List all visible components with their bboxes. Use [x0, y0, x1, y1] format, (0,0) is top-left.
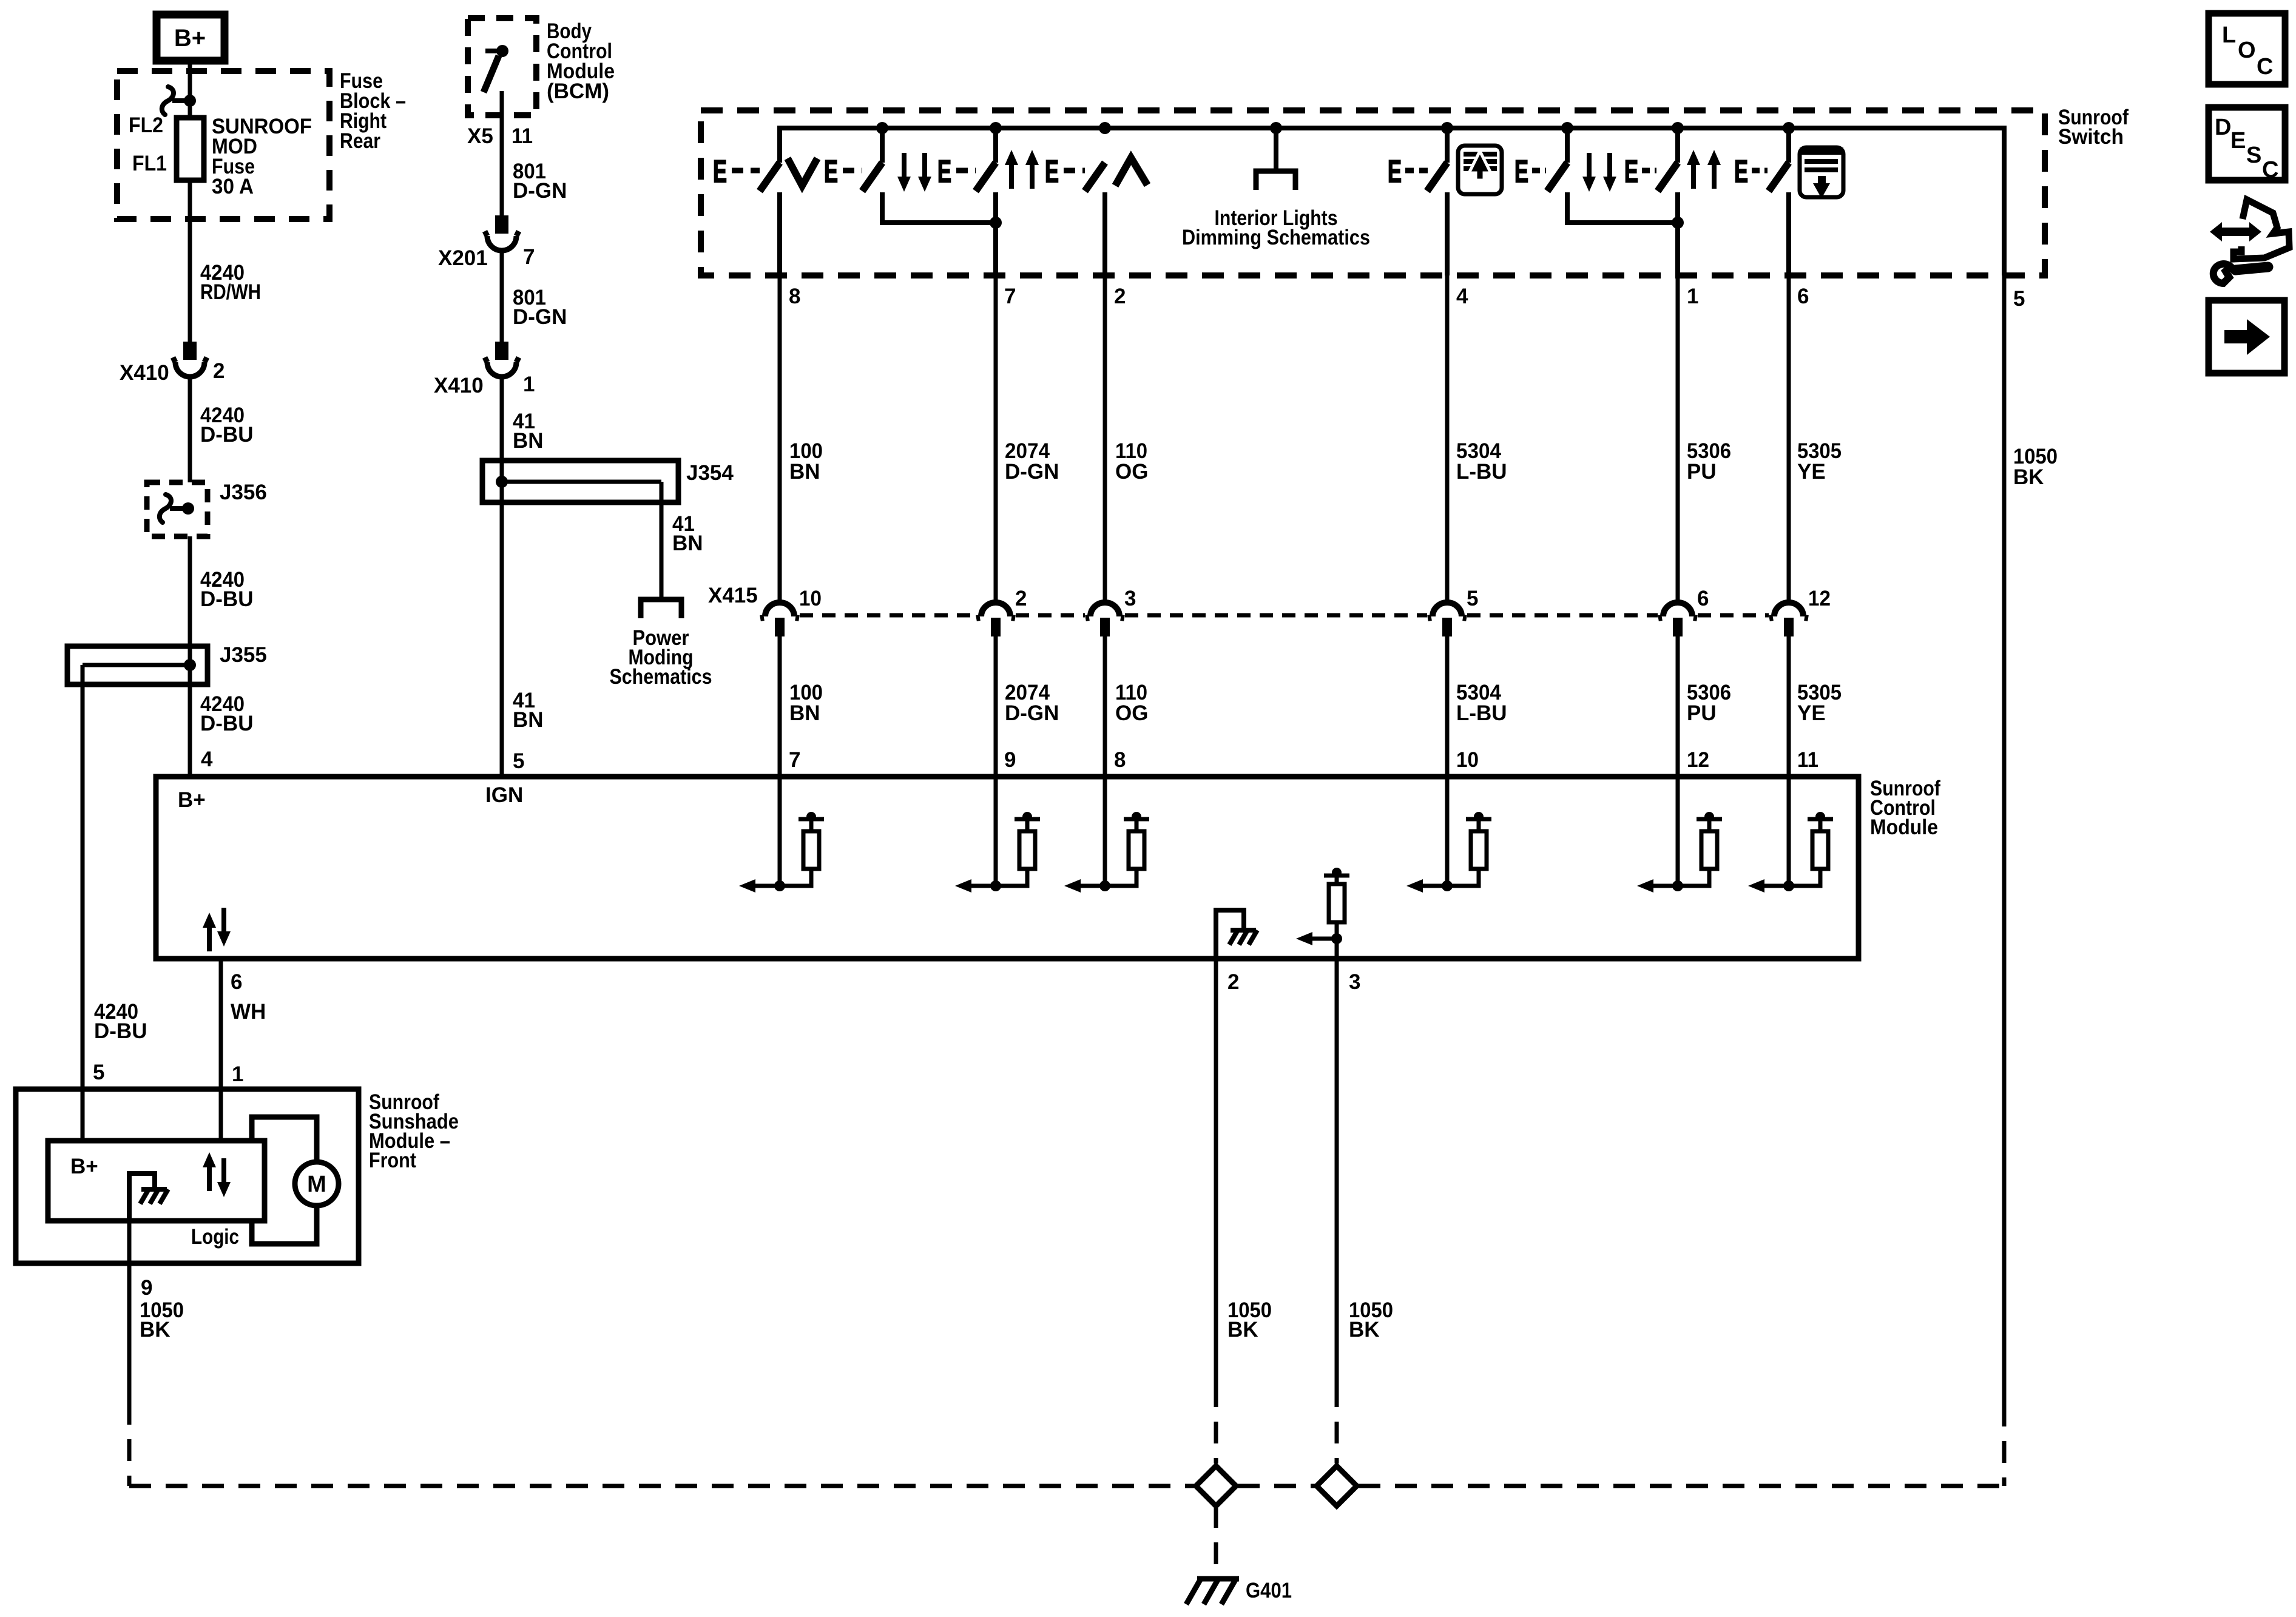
svg-text:FL1: FL1 — [132, 152, 167, 175]
wire X415-6 to module pin 12 — [1676, 635, 1680, 777]
wire X410 to J354 — [500, 374, 504, 482]
DESC reference box — [2209, 107, 2285, 183]
svg-text:D-GN: D-GN — [1005, 701, 1059, 725]
svg-text:7: 7 — [789, 748, 800, 772]
LOC reference box — [2209, 13, 2285, 84]
wire X415-3 to module pin 8 — [1103, 635, 1107, 777]
wire label 4240 D-BU — [200, 568, 253, 611]
svg-text:B+: B+ — [70, 1155, 98, 1178]
svg-text:J355: J355 — [220, 643, 267, 667]
wire label 5305 YE — [1797, 439, 1842, 484]
wire X415-5 to module pin 10 — [1445, 635, 1450, 777]
svg-text:IGN: IGN — [485, 783, 523, 807]
icon sunshade close — [1800, 147, 1843, 198]
svg-text:BN: BN — [513, 708, 544, 732]
svg-text:1: 1 — [523, 373, 535, 396]
switch S8 sunshade-close — [1734, 128, 1789, 275]
node at fuse top — [184, 95, 196, 107]
splice diamond S1 — [1196, 1466, 1236, 1506]
input network pin 10 — [1406, 777, 1491, 893]
connector X415 pin 3 — [1086, 587, 1136, 636]
sunroof switch dashed box — [701, 110, 2045, 275]
wire label 100 BN — [789, 681, 823, 725]
svg-text:5: 5 — [1467, 587, 1478, 610]
svg-text:RD/WH: RD/WH — [200, 280, 261, 304]
wire B+ to fuse — [188, 61, 192, 119]
svg-text:X410: X410 — [434, 374, 484, 397]
wire label 41 BN — [672, 512, 703, 555]
svg-text:Logic: Logic — [191, 1225, 239, 1249]
wire X415-12 to module pin 11 — [1787, 635, 1791, 777]
svg-text:5: 5 — [513, 749, 524, 773]
module internal ground pin 2 — [1216, 910, 1257, 959]
svg-text:D-BU: D-BU — [94, 1019, 147, 1043]
svg-text:J356: J356 — [220, 481, 267, 504]
sunshade module label — [369, 1090, 459, 1172]
wire label 4240 D-BU — [200, 403, 253, 447]
svg-text:B+: B+ — [174, 25, 206, 52]
svg-text:X201: X201 — [438, 246, 488, 270]
motor M1 — [295, 1162, 339, 1206]
wire label 100 BN — [789, 439, 823, 484]
svg-text:WH: WH — [231, 1000, 266, 1024]
wire switch 5 ground 1050 BK — [2013, 445, 2058, 489]
connector view icon — [2210, 200, 2289, 283]
wire label 801 D-GN — [513, 286, 567, 329]
input network pin 9 — [955, 777, 1040, 893]
svg-text:Schematics: Schematics — [610, 665, 712, 689]
svg-text:30 A: 30 A — [212, 175, 254, 198]
svg-text:9: 9 — [1004, 748, 1016, 772]
wire label 4240 D-BU — [200, 692, 253, 735]
svg-text:YE: YE — [1797, 460, 1826, 484]
svg-text:6: 6 — [1797, 285, 1809, 308]
svg-text:D-GN: D-GN — [1005, 460, 1059, 484]
wire X415-10 to module pin 7 — [778, 635, 782, 777]
svg-text:L: L — [2222, 22, 2236, 48]
input network pin 8 — [1064, 777, 1149, 893]
wire switch 2 to X415 pin 3 — [1103, 275, 1107, 602]
svg-text:E: E — [1388, 154, 1402, 189]
wire label 1050 BK — [1227, 1298, 1272, 1342]
switch S4 slide-open — [996, 154, 1147, 275]
svg-text:Rear: Rear — [340, 129, 380, 153]
wire label 110 OG — [1115, 681, 1148, 725]
motor drive loop — [252, 1117, 317, 1244]
wire sunshade pin 9 ground — [127, 1221, 132, 1486]
svg-text:9: 9 — [141, 1276, 152, 1300]
svg-text:D-BU: D-BU — [200, 423, 253, 447]
module output network pin 3 — [1296, 868, 1349, 959]
connector X415 pin 2 — [976, 587, 1027, 636]
connector X415 pin 6 — [1658, 587, 1709, 636]
switch S6 sunshade-close partial — [1514, 128, 1616, 192]
svg-text:X5: X5 — [467, 124, 493, 148]
fuse tap hook — [162, 87, 190, 115]
svg-text:5: 5 — [93, 1061, 104, 1084]
svg-text:O: O — [2238, 38, 2256, 63]
svg-text:10: 10 — [1456, 748, 1479, 772]
svg-text:12: 12 — [1687, 748, 1709, 772]
svg-text:FL2: FL2 — [129, 113, 163, 137]
wire module pin 6 to sunshade pin 1 — [219, 959, 223, 1141]
wire BCM X5 pin 11 to X201 — [500, 91, 504, 215]
wire J354 to module pin 5 IGN — [500, 502, 504, 777]
wire label 801 D-GN — [513, 160, 567, 203]
wire label 2074 D-GN — [1005, 681, 1059, 725]
connector X415 dashed harness line — [708, 584, 1769, 615]
BCM label — [547, 19, 615, 103]
svg-text:M: M — [307, 1172, 326, 1197]
splice pack J354 — [482, 461, 734, 502]
power moding schematics label — [610, 626, 712, 689]
svg-text:OG: OG — [1115, 460, 1148, 484]
wire switch 8 to X415 pin 10 — [778, 275, 782, 602]
branch wire J354 to power moding — [660, 482, 664, 597]
wire module pin 3 to splice — [1335, 959, 1339, 1463]
wire switch 4 to X415 pin 5 — [1445, 275, 1450, 602]
svg-text:C: C — [2262, 157, 2278, 183]
wire switch 6 to X415 pin 12 — [1787, 275, 1791, 602]
switch common bus wire — [780, 128, 2004, 275]
wire switch 1 to X415 pin 6 — [1676, 275, 1680, 602]
wire switch 7 to X415 pin 2 — [994, 275, 998, 602]
sunshade pin 5 wire inside — [81, 1089, 85, 1143]
svg-text:PU: PU — [1687, 701, 1717, 725]
input network pin 11 — [1748, 777, 1833, 893]
logic up-down arrows — [203, 1152, 231, 1197]
connector X5 pin 11 labels — [467, 124, 533, 148]
svg-text:E: E — [1045, 154, 1059, 189]
svg-text:BN: BN — [789, 460, 820, 484]
svg-text:12: 12 — [1808, 587, 1831, 610]
wire label 2074 D-GN — [1005, 439, 1059, 484]
svg-text:L-BU: L-BU — [1456, 701, 1507, 725]
svg-text:BN: BN — [513, 429, 544, 453]
sunroof sunshade module box — [16, 1089, 359, 1263]
svg-text:S: S — [2246, 143, 2261, 168]
BCM internal switch — [484, 45, 508, 92]
svg-text:BN: BN — [672, 532, 703, 555]
svg-text:B+: B+ — [178, 788, 206, 812]
wire X201 to X410 — [500, 248, 504, 342]
svg-text:1: 1 — [1687, 285, 1698, 308]
svg-text:4: 4 — [1456, 285, 1468, 308]
svg-text:8: 8 — [1114, 748, 1126, 772]
svg-text:C: C — [2257, 54, 2273, 79]
svg-text:BK: BK — [1227, 1318, 1258, 1342]
logic internal ground — [129, 1173, 168, 1221]
svg-text:BK: BK — [1349, 1318, 1380, 1342]
fuse FL2/FL1 SUNROOF MOD Fuse 30 A — [129, 113, 312, 198]
svg-text:3: 3 — [1349, 970, 1360, 994]
svg-text:D-GN: D-GN — [513, 305, 567, 329]
forward arrow box — [2209, 300, 2284, 373]
wire splice to G401 — [1214, 1506, 1218, 1578]
svg-text:BK: BK — [140, 1318, 171, 1342]
connector X410 pin 2 — [120, 342, 225, 385]
svg-text:1: 1 — [232, 1062, 243, 1086]
svg-text:Dimming Schematics: Dimming Schematics — [1182, 226, 1370, 249]
wire label 5305 YE — [1797, 681, 1842, 725]
svg-text:3: 3 — [1124, 587, 1136, 610]
connector X410 pin 1 — [434, 342, 535, 397]
icon sunshade open — [1458, 146, 1502, 194]
splice pack J355 — [67, 643, 267, 684]
svg-text:E: E — [713, 154, 727, 189]
wire X410 to J356 — [188, 374, 192, 485]
svg-text:BK: BK — [2013, 465, 2044, 489]
wire label 1050 BK — [140, 1298, 184, 1342]
wire label 5306 PU — [1687, 681, 1731, 725]
fuse block dashed box — [117, 71, 329, 219]
svg-text:2: 2 — [1114, 285, 1126, 308]
switch pin labels — [789, 285, 2025, 311]
battery terminal B+ — [157, 15, 225, 61]
connector X201 pin 7 — [438, 215, 535, 270]
input network pin 12 — [1637, 777, 1722, 893]
svg-text:7: 7 — [1004, 285, 1016, 308]
bus junction nodes — [876, 122, 1795, 134]
wire label 5304 L-BU — [1456, 681, 1507, 725]
wire switch pin 5 to ground bus — [2002, 275, 2007, 1486]
svg-text:Module: Module — [1870, 815, 1938, 839]
connector X415 pin 5 — [1428, 587, 1478, 636]
svg-text:6: 6 — [231, 970, 242, 994]
svg-text:5: 5 — [2013, 287, 2025, 311]
svg-text:8: 8 — [789, 285, 800, 308]
svg-text:G401: G401 — [1246, 1579, 1292, 1602]
wire X415-2 to module pin 9 — [994, 635, 998, 777]
ground G401 — [1186, 1579, 1292, 1604]
svg-text:11: 11 — [1797, 748, 1818, 772]
switch S1 vent-close — [713, 128, 882, 191]
switch S2 vent-open — [780, 153, 931, 275]
svg-text:6: 6 — [1697, 587, 1709, 610]
svg-text:PU: PU — [1687, 460, 1717, 484]
wire label 41 BN — [513, 689, 544, 732]
svg-text:YE: YE — [1797, 701, 1826, 725]
ground bus dashed wire — [129, 1484, 2004, 1488]
svg-text:Switch: Switch — [2058, 125, 2124, 149]
sunroof switch label — [2058, 106, 2129, 149]
svg-text:OG: OG — [1115, 701, 1148, 725]
wire J355 to module pin 4 — [188, 684, 192, 777]
svg-text:(BCM): (BCM) — [547, 79, 609, 103]
wire label 5306 PU — [1687, 439, 1731, 484]
off-page connector power moding — [641, 599, 681, 618]
sunshade logic box — [48, 1141, 265, 1221]
svg-text:D-BU: D-BU — [200, 712, 253, 735]
svg-text:E: E — [1624, 154, 1638, 189]
body control module BCM dashed box — [468, 18, 536, 115]
svg-text:2: 2 — [1015, 587, 1027, 610]
switch S5 sunshade-open — [1388, 128, 1447, 275]
svg-text:D-GN: D-GN — [513, 179, 567, 203]
svg-text:E: E — [1734, 154, 1748, 189]
svg-text:11: 11 — [512, 124, 533, 148]
svg-text:X410: X410 — [120, 361, 169, 385]
wire fuse to X410 pin 2 — [188, 180, 192, 342]
svg-text:E: E — [2230, 128, 2246, 154]
input network pin 7 — [739, 777, 824, 893]
svg-text:D: D — [2215, 115, 2231, 140]
wire J356 to J355 — [188, 536, 192, 646]
switch S3 slide-close — [882, 128, 1039, 229]
splice diamond S2 — [1317, 1466, 1357, 1506]
wire label 110 OG — [1115, 439, 1148, 484]
svg-text:J354: J354 — [686, 461, 734, 485]
sunroof control module label — [1870, 777, 1940, 839]
in-line PTC J356 — [147, 481, 267, 536]
svg-text:L-BU: L-BU — [1456, 460, 1507, 484]
wire label 1050 BK — [1349, 1298, 1393, 1342]
svg-text:10: 10 — [799, 587, 822, 610]
connector X415 pin 10 — [760, 587, 822, 636]
svg-text:BN: BN — [789, 701, 820, 725]
branch wire J355 to sunshade pin 5 — [81, 665, 85, 1089]
svg-text:7: 7 — [523, 245, 535, 269]
wire module pin 2 to splice — [1214, 959, 1218, 1463]
svg-text:4: 4 — [201, 748, 213, 771]
wire label 41 BN — [513, 410, 544, 453]
switch S7 joined to S6 — [1567, 128, 1721, 275]
wire label 4240 D-BU — [94, 1000, 147, 1043]
connector X415 pin 12 — [1769, 587, 1831, 636]
svg-text:X415: X415 — [708, 584, 758, 607]
module up-down drive arrows — [203, 908, 231, 951]
svg-text:2: 2 — [213, 359, 225, 383]
wire label 5304 L-BU — [1456, 439, 1507, 484]
svg-text:E: E — [824, 154, 838, 189]
svg-text:2: 2 — [1227, 970, 1239, 994]
svg-text:E: E — [1514, 154, 1528, 189]
svg-text:D-BU: D-BU — [200, 587, 253, 611]
sunroof control module box — [156, 777, 1859, 959]
interior lights dimming tap — [1182, 128, 1370, 249]
svg-text:E: E — [937, 154, 951, 189]
svg-text:Front: Front — [369, 1149, 416, 1172]
wire label 4240 RD/WH — [200, 261, 261, 304]
